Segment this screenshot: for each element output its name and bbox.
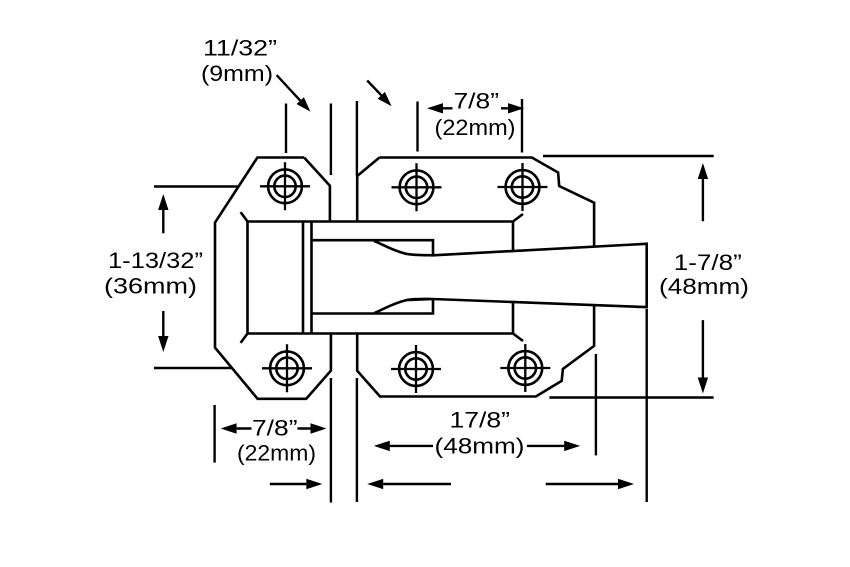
svg-text:(22mm): (22mm) (237, 441, 316, 466)
svg-text:(48mm): (48mm) (435, 433, 525, 458)
svg-text:7/8”: 7/8” (454, 88, 500, 113)
svg-text:(48mm): (48mm) (659, 274, 749, 299)
svg-text:(22mm): (22mm) (435, 115, 516, 140)
svg-text:(36mm): (36mm) (104, 274, 197, 299)
svg-text:11/32”: 11/32” (203, 36, 277, 61)
svg-text:1-13/32”: 1-13/32” (108, 248, 203, 273)
svg-text:(9mm): (9mm) (201, 61, 273, 86)
svg-text:17/8”: 17/8” (450, 407, 511, 432)
svg-text:1-7/8”: 1-7/8” (674, 250, 742, 275)
svg-text:7/8”: 7/8” (252, 415, 298, 440)
